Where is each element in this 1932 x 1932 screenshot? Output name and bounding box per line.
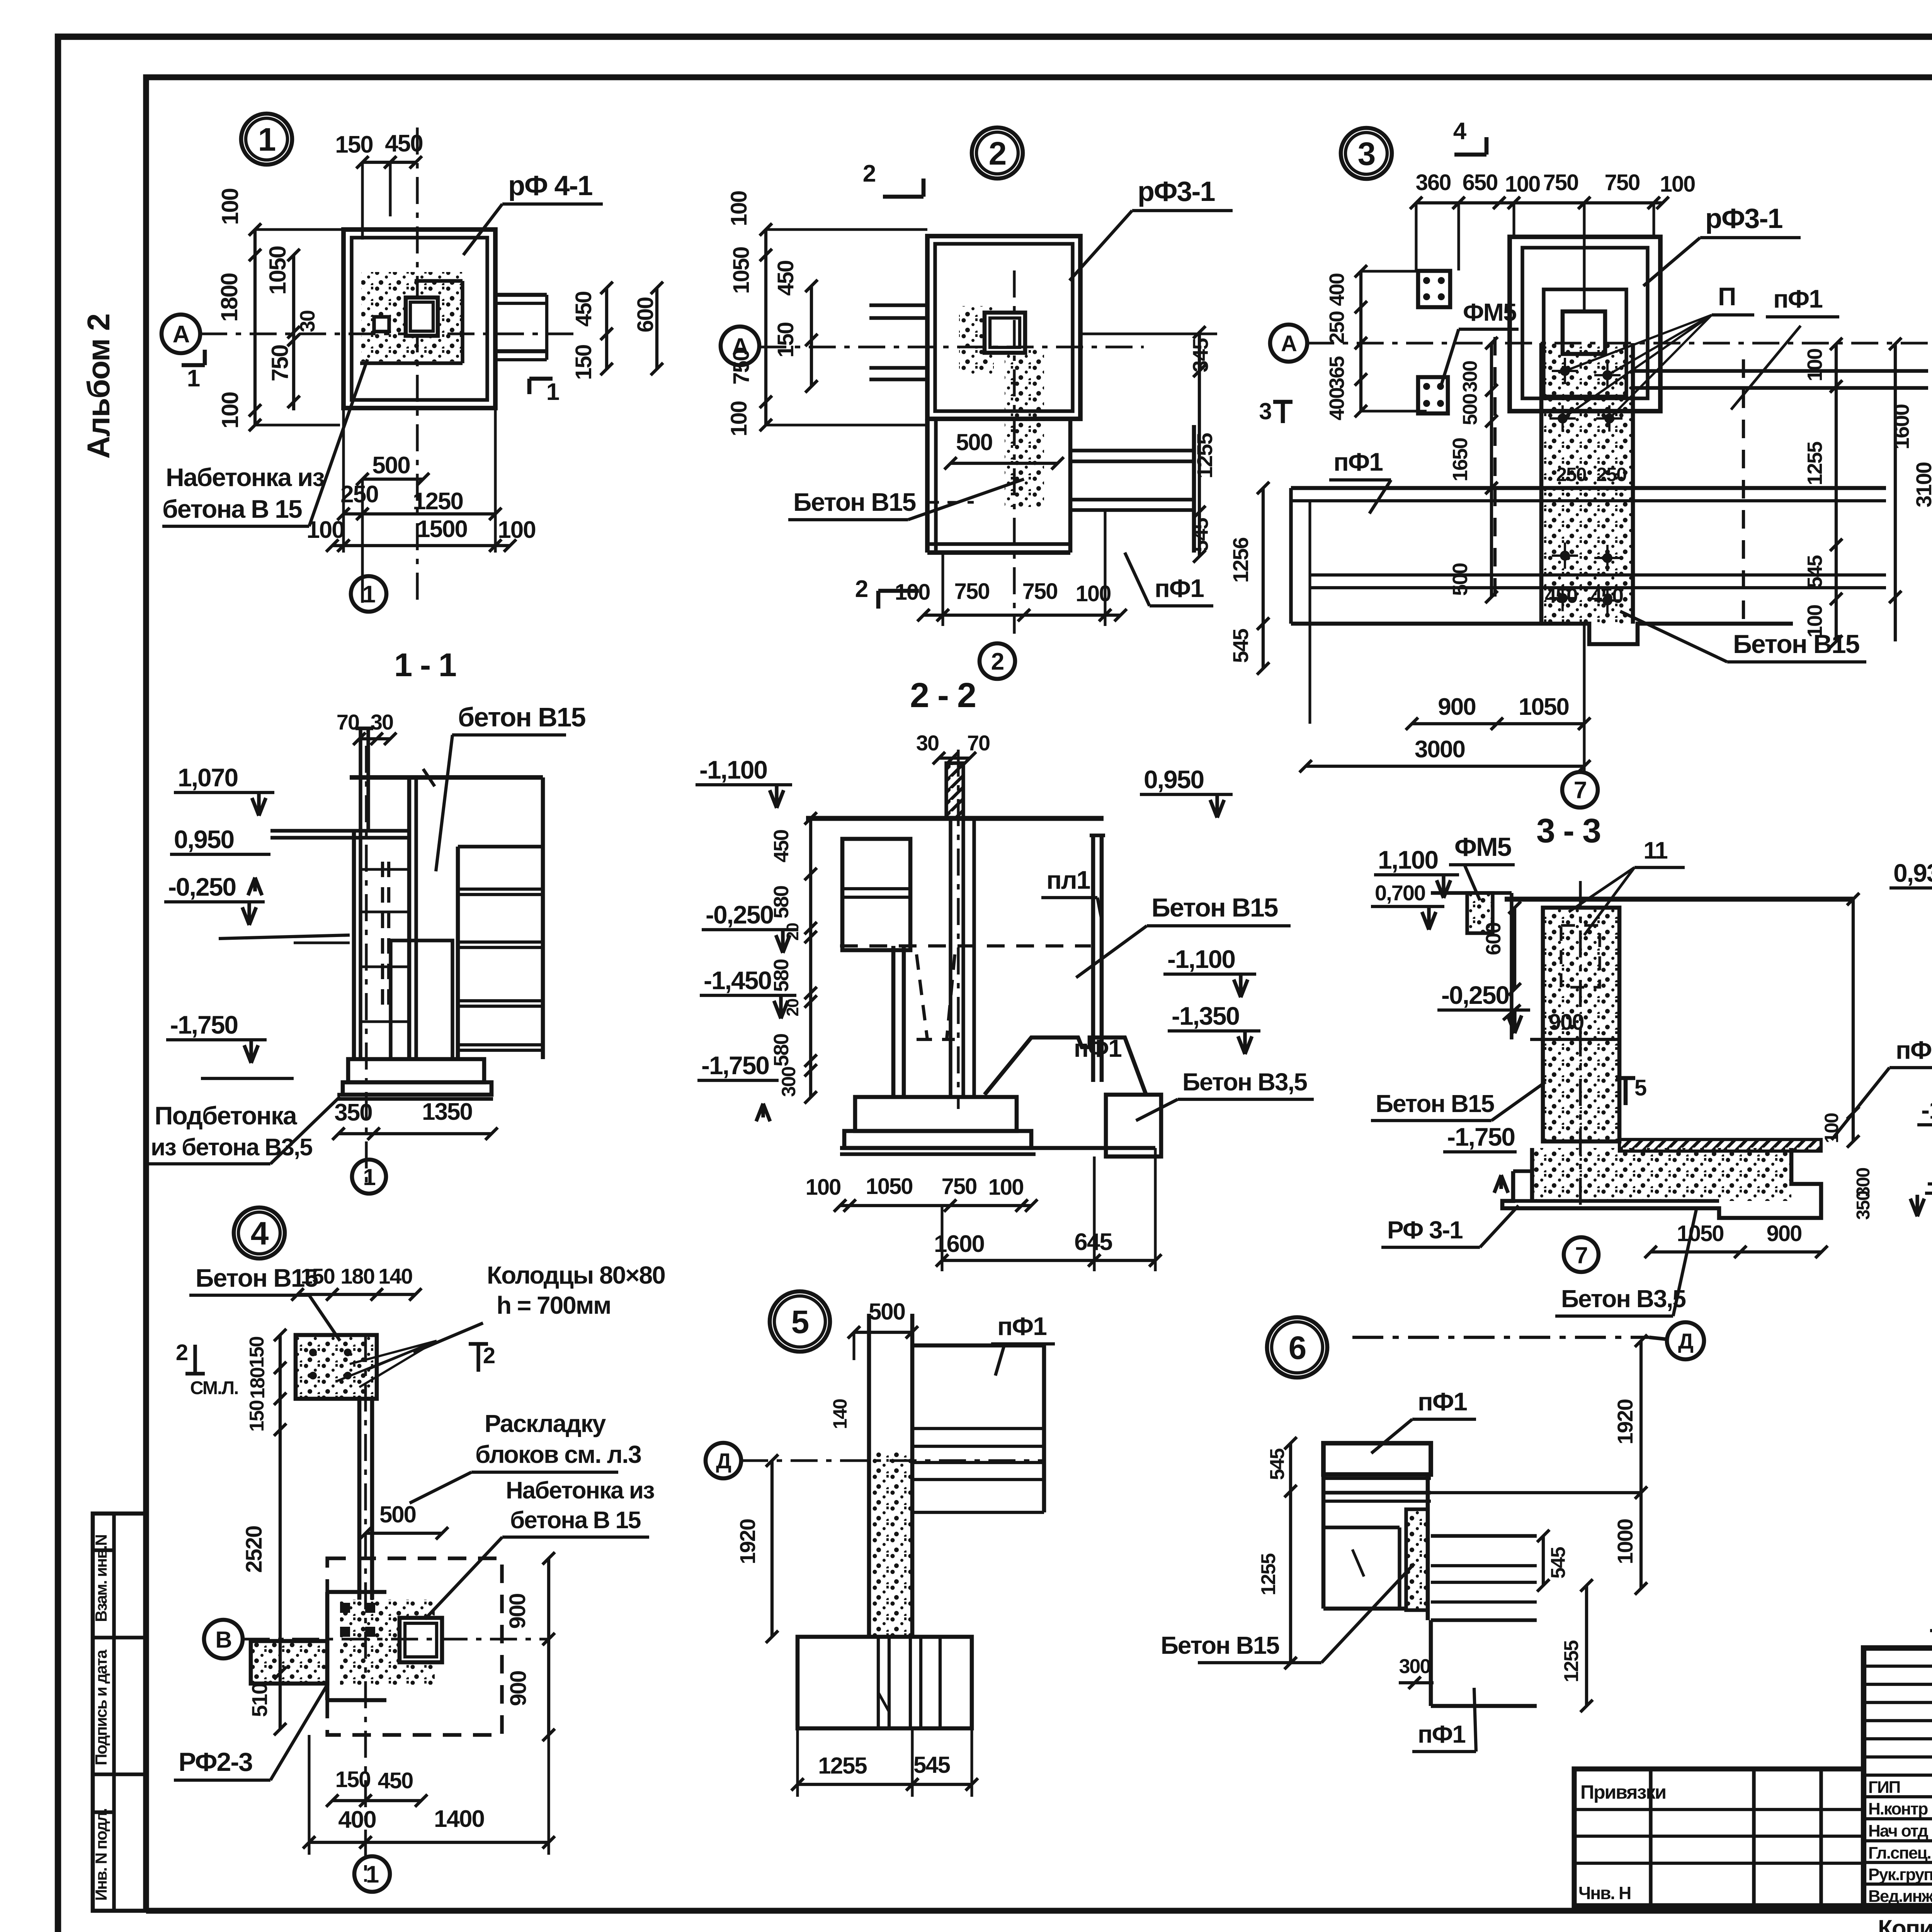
svg-text:545: 545 bbox=[1547, 1547, 1570, 1579]
detail3 axis circle A bbox=[1270, 325, 1307, 362]
section1-1 right shelf block bbox=[456, 847, 460, 1059]
section1-1 centerline vertical bbox=[365, 746, 367, 1186]
svg-text:150: 150 bbox=[335, 131, 372, 158]
node circle 7 under detail3 bbox=[1562, 772, 1598, 808]
svg-text:5: 5 bbox=[1634, 1075, 1646, 1100]
svg-text:750: 750 bbox=[1022, 579, 1058, 604]
svg-text:1: 1 bbox=[258, 121, 276, 158]
svg-text:А: А bbox=[173, 321, 190, 348]
svg-text:1050: 1050 bbox=[265, 246, 291, 294]
svg-text:2 - 2: 2 - 2 bbox=[910, 676, 976, 715]
svg-text:100: 100 bbox=[1803, 605, 1827, 638]
svg-text:1800: 1800 bbox=[216, 273, 242, 321]
svg-text:3100: 3100 bbox=[1912, 463, 1932, 508]
svg-text:1: 1 bbox=[546, 379, 559, 405]
detail1 axis centerline vertical bbox=[416, 128, 418, 607]
detail4 concrete in lower plan bbox=[340, 1600, 435, 1685]
svg-text:900: 900 bbox=[506, 1671, 531, 1706]
svg-text:100: 100 bbox=[726, 191, 752, 226]
svg-text:пФ1: пФ1 bbox=[1773, 284, 1822, 313]
node circle 3 bbox=[1341, 128, 1392, 179]
svg-text:100: 100 bbox=[1505, 172, 1540, 197]
svg-text:450: 450 bbox=[1545, 584, 1577, 607]
svg-text:1400: 1400 bbox=[434, 1806, 484, 1832]
section1-1 footing bbox=[348, 1059, 484, 1082]
svg-text:Д: Д bbox=[1678, 1329, 1693, 1353]
svg-text:750: 750 bbox=[1605, 170, 1640, 195]
svg-text:Копир.: Копир. bbox=[1878, 1915, 1932, 1932]
fm5 top line bbox=[1431, 891, 1512, 895]
svg-text:2: 2 bbox=[989, 135, 1006, 172]
svg-text:400: 400 bbox=[1325, 274, 1349, 306]
svg-text:545: 545 bbox=[913, 1752, 950, 1778]
section2-2 right panel pl1 bbox=[1091, 835, 1095, 1082]
node circle 4 bbox=[234, 1207, 285, 1259]
svg-text:бетона В 15: бетона В 15 bbox=[510, 1507, 641, 1534]
detail6 axis circle D right bbox=[1667, 1322, 1704, 1359]
svg-text:пФ1: пФ1 bbox=[1896, 1036, 1932, 1064]
detail2 axis centerline vertical bbox=[1013, 270, 1015, 634]
svg-text:Бетон В15: Бетон В15 bbox=[1376, 1090, 1494, 1117]
svg-text:Бетон В15: Бетон В15 bbox=[196, 1264, 318, 1292]
node circle 2 bottom bbox=[980, 643, 1015, 679]
svg-text:450: 450 bbox=[378, 1768, 413, 1793]
svg-text:1050: 1050 bbox=[866, 1174, 912, 1199]
section2-2 dashed trapezoid bbox=[917, 954, 927, 1039]
svg-text:900: 900 bbox=[1438, 694, 1475, 720]
svg-text:150: 150 bbox=[571, 345, 596, 380]
section2-2 left upper wall bbox=[842, 839, 910, 950]
svg-text:0,700: 0,700 bbox=[1375, 881, 1425, 905]
detail1 small opening square bbox=[406, 298, 438, 336]
left sidebar boxes bbox=[93, 1514, 146, 1911]
detail4 leaders from kolodtsy to cap bbox=[350, 1341, 437, 1364]
svg-text:Н.контр: Н.контр bbox=[1868, 1799, 1928, 1818]
svg-text:100: 100 bbox=[895, 580, 930, 605]
svg-text:900: 900 bbox=[1549, 1010, 1584, 1035]
detail1 beam to the right bbox=[495, 293, 547, 297]
svg-text:0,950: 0,950 bbox=[174, 825, 234, 854]
svg-text:750: 750 bbox=[267, 345, 293, 381]
section1-1 column walls bbox=[352, 831, 356, 1059]
detail2 axis circle A bbox=[721, 327, 759, 365]
svg-text:Бетон В15: Бетон В15 bbox=[1151, 893, 1278, 922]
svg-text:Гл.спец.: Гл.спец. bbox=[1868, 1844, 1931, 1862]
svg-text:180: 180 bbox=[247, 1368, 269, 1399]
detail3 right beam top lines bbox=[1633, 369, 1928, 372]
inner frame bottom line bbox=[146, 1908, 1932, 1913]
section1-1 ladder lines in column bbox=[361, 868, 409, 871]
section1-1 ground line at -0,250 bbox=[219, 935, 350, 939]
svg-text:250: 250 bbox=[340, 481, 378, 508]
svg-text:2: 2 bbox=[991, 648, 1003, 675]
svg-text:1000: 1000 bbox=[1613, 1519, 1637, 1565]
svg-text:580: 580 bbox=[770, 886, 793, 918]
svg-text:250: 250 bbox=[1325, 311, 1349, 344]
section3-3 centerline bbox=[1579, 881, 1582, 1209]
detail2 lower wall extension bbox=[925, 419, 930, 553]
svg-text:600: 600 bbox=[633, 298, 658, 333]
svg-text:1255: 1255 bbox=[1803, 442, 1827, 485]
detail2 inner square opening bbox=[985, 313, 1025, 353]
svg-text:h = 700мм: h = 700мм bbox=[497, 1291, 611, 1319]
detail4 lower plan dashed rect bbox=[327, 1558, 502, 1735]
svg-text:Д: Д bbox=[716, 1449, 731, 1473]
detail2 concrete strip lower bbox=[1005, 349, 1044, 508]
svg-text:-1,750: -1,750 bbox=[1447, 1122, 1515, 1151]
svg-text:600: 600 bbox=[1482, 923, 1505, 955]
detail3 right dashed centerline vertical bbox=[1742, 359, 1745, 624]
detail6 lower right part bbox=[1429, 1620, 1433, 1706]
detail5 axis centerline bbox=[741, 1459, 1044, 1462]
personnel table bbox=[1864, 1648, 1932, 1906]
svg-text:РФ2-3: РФ2-3 bbox=[179, 1747, 252, 1777]
svg-text:7: 7 bbox=[1575, 1242, 1587, 1268]
svg-text:1: 1 bbox=[363, 1164, 375, 1190]
detail3 leader pf1 bbox=[1731, 326, 1801, 410]
svg-text:Набетонка из: Набетонка из bbox=[506, 1477, 654, 1504]
detail6 concrete strip bbox=[1406, 1509, 1428, 1610]
svg-text:3000: 3000 bbox=[1415, 736, 1465, 763]
svg-text:6: 6 bbox=[1289, 1330, 1306, 1366]
svg-text:2: 2 bbox=[855, 576, 867, 602]
svg-text:150: 150 bbox=[335, 1767, 371, 1792]
axis circle A detail1 bbox=[162, 315, 200, 353]
svg-text:450: 450 bbox=[571, 292, 596, 327]
svg-text:Бетон В15: Бетон В15 bbox=[1733, 629, 1859, 659]
detail2 left beam lines bbox=[869, 303, 927, 307]
detail3 bolt square B bbox=[1418, 377, 1448, 413]
svg-text:1600: 1600 bbox=[1889, 405, 1913, 450]
section2-2 hatched post bbox=[946, 763, 963, 818]
node circle 1 bbox=[241, 114, 292, 165]
svg-text:360: 360 bbox=[1416, 170, 1451, 195]
svg-text:Нач отд: Нач отд bbox=[1868, 1821, 1929, 1840]
svg-text:1920: 1920 bbox=[735, 1519, 760, 1565]
svg-text:140: 140 bbox=[829, 1399, 851, 1429]
svg-text:Привязки: Привязки bbox=[1580, 1781, 1666, 1803]
svg-text:Бетон В15: Бетон В15 bbox=[1161, 1631, 1279, 1659]
svg-text:1: 1 bbox=[366, 1861, 379, 1888]
svg-text:1 - 1: 1 - 1 bbox=[394, 647, 456, 684]
svg-text:3 - 3: 3 - 3 bbox=[1536, 811, 1600, 850]
detail6 right beam lines bbox=[1426, 1475, 1430, 1620]
svg-text:500: 500 bbox=[372, 452, 410, 479]
svg-text:450: 450 bbox=[385, 130, 422, 157]
svg-text:150: 150 bbox=[773, 323, 798, 358]
node circle 1 under section 1-1 bbox=[352, 1160, 386, 1194]
svg-text:2520: 2520 bbox=[241, 1526, 267, 1573]
svg-text:1,070: 1,070 bbox=[178, 763, 238, 792]
svg-text:1255: 1255 bbox=[1257, 1553, 1280, 1595]
svg-text:ГИП: ГИП bbox=[1868, 1778, 1900, 1797]
detail1 inner plan rect bbox=[352, 238, 487, 400]
detail2 concrete patch upper bbox=[959, 306, 994, 374]
detail3 upper block outer rect bbox=[1510, 237, 1660, 411]
section1-1 top post bbox=[359, 728, 362, 831]
svg-text:Рук.груп: Рук.груп bbox=[1868, 1865, 1932, 1884]
detail3 upper block inner rect bbox=[1522, 248, 1648, 398]
svg-text:750: 750 bbox=[954, 579, 990, 604]
svg-text:0,950: 0,950 bbox=[1144, 765, 1204, 794]
svg-text:500: 500 bbox=[1449, 563, 1472, 596]
detail4 bolt squares lower bbox=[340, 1603, 350, 1613]
detail6 axis centerline bbox=[1352, 1336, 1649, 1339]
detail5 footing plan bbox=[798, 1637, 972, 1728]
section2-2 lower column bbox=[891, 946, 896, 1097]
svg-text:250: 250 bbox=[1596, 464, 1626, 485]
svg-text:500: 500 bbox=[1459, 394, 1481, 425]
svg-text:пл1: пл1 bbox=[1046, 866, 1090, 894]
svg-text:пФ1: пФ1 bbox=[1418, 1387, 1467, 1416]
svg-text:150: 150 bbox=[246, 1401, 268, 1432]
svg-text:100: 100 bbox=[217, 189, 243, 225]
svg-text:Подбетонка: Подбетонка bbox=[155, 1101, 298, 1130]
detail5 top shelf lines bbox=[912, 1344, 1044, 1348]
section3-3 footing outline bbox=[1502, 1148, 1821, 1218]
detail4 cap bolt squares bbox=[309, 1349, 317, 1356]
section3-3 hatched rubble strip bbox=[1619, 1139, 1821, 1151]
svg-text:пФ1: пФ1 bbox=[1155, 574, 1204, 602]
svg-text:-1,100: -1,100 bbox=[1167, 945, 1235, 973]
svg-text:-1,750: -1,750 bbox=[701, 1051, 769, 1080]
svg-text:750: 750 bbox=[942, 1174, 977, 1199]
svg-text:545: 545 bbox=[1266, 1449, 1289, 1480]
svg-text:30: 30 bbox=[916, 731, 939, 755]
detail3 bolt square A bbox=[1418, 271, 1450, 307]
svg-text:Бетон В3,5: Бетон В3,5 bbox=[1561, 1285, 1685, 1313]
svg-text:Инв. N подл.: Инв. N подл. bbox=[92, 1809, 110, 1901]
svg-text:СМ.Л.: СМ.Л. bbox=[190, 1378, 238, 1398]
svg-text:пФ1: пФ1 bbox=[1418, 1720, 1465, 1748]
svg-text:450: 450 bbox=[770, 830, 793, 862]
svg-text:500: 500 bbox=[956, 429, 992, 455]
svg-text:П: П bbox=[1718, 282, 1735, 311]
detail2 plan inner rect bbox=[935, 244, 1073, 411]
svg-text:100: 100 bbox=[217, 392, 243, 429]
svg-text:-1,100: -1,100 bbox=[699, 755, 767, 784]
detail5 strip concrete bbox=[871, 1451, 911, 1637]
node circle 7 under 3-3 bbox=[1564, 1237, 1599, 1272]
section2-2 right beton block bbox=[1106, 1095, 1161, 1156]
detail6 break mark left block bbox=[1352, 1549, 1364, 1577]
svg-text:580: 580 bbox=[770, 1034, 793, 1066]
section3-3 dashed pocket in column bbox=[1561, 925, 1600, 987]
svg-text:1050: 1050 bbox=[729, 247, 754, 294]
detail4 axis line B horizontal bbox=[243, 1638, 549, 1640]
svg-text:1250: 1250 bbox=[413, 488, 463, 515]
svg-text:250: 250 bbox=[1556, 464, 1586, 485]
detail3 concrete column strip bbox=[1541, 343, 1633, 624]
section3-3 footing speckled bbox=[1532, 1148, 1791, 1201]
svg-text:-0,250: -0,250 bbox=[168, 872, 236, 901]
svg-text:545: 545 bbox=[1803, 555, 1827, 588]
section1-1 middle concrete block bbox=[391, 940, 452, 1059]
svg-text:Взам. инв.N: Взам. инв.N bbox=[92, 1535, 110, 1622]
svg-text:-1,350: -1,350 bbox=[1172, 1002, 1239, 1030]
svg-text:150: 150 bbox=[301, 1264, 334, 1288]
svg-text:бетона В 15: бетона В 15 bbox=[162, 495, 302, 523]
svg-text:Подпись и дата: Подпись и дата bbox=[92, 1650, 110, 1765]
svg-text:510: 510 bbox=[247, 1683, 272, 1717]
detail3 footing left cut edge bbox=[1289, 488, 1293, 624]
svg-text:пФ1: пФ1 bbox=[1074, 1034, 1121, 1062]
detail6 top beam block bbox=[1323, 1443, 1431, 1475]
svg-text:300: 300 bbox=[1399, 1655, 1430, 1678]
section1-1 top wall line bbox=[350, 775, 543, 780]
svg-text:Вед.инж.: Вед.инж. bbox=[1868, 1887, 1932, 1906]
svg-text:1650: 1650 bbox=[1449, 438, 1472, 481]
detail3 footing inner lines bbox=[1291, 499, 1886, 502]
svg-text:Раскладку: Раскладку bbox=[485, 1410, 606, 1437]
svg-text:150: 150 bbox=[246, 1337, 268, 1368]
svg-text:100: 100 bbox=[1803, 349, 1827, 381]
detail3 footing plan top edge bbox=[1291, 486, 1886, 490]
svg-text:1050: 1050 bbox=[1677, 1221, 1723, 1246]
svg-text:30: 30 bbox=[371, 710, 393, 734]
section3-3 top slab line bbox=[1505, 897, 1853, 902]
detail4 concrete cap bbox=[296, 1335, 377, 1399]
svg-text:Набетонка из: Набетонка из bbox=[166, 463, 324, 492]
detail1 small square left bbox=[374, 317, 389, 332]
svg-text:400: 400 bbox=[1325, 388, 1349, 420]
svg-text:3: 3 bbox=[1259, 398, 1271, 424]
svg-text:Колодцы 80×80: Колодцы 80×80 bbox=[487, 1261, 665, 1289]
detail4 white square opening bbox=[400, 1618, 442, 1662]
detail4 left concrete stub bbox=[251, 1641, 327, 1684]
detail1 inner concrete boundary rect bbox=[415, 279, 463, 282]
fm5 right vertical line bbox=[1510, 893, 1513, 1039]
node circle 6 bbox=[1267, 1317, 1327, 1378]
svg-text:-1,100: -1,100 bbox=[1921, 1095, 1932, 1124]
svg-text:Альбом 2: Альбом 2 bbox=[81, 314, 116, 459]
svg-text:1350: 1350 bbox=[422, 1099, 472, 1125]
svg-text:1255: 1255 bbox=[1192, 433, 1217, 478]
detail2 axis centerline horizontal bbox=[759, 345, 1144, 348]
svg-text:ФМ5: ФМ5 bbox=[1463, 298, 1516, 326]
svg-text:1920: 1920 bbox=[1613, 1400, 1637, 1445]
svg-text:1050: 1050 bbox=[1519, 694, 1569, 720]
detail4 lower plan solid partial bbox=[325, 1592, 330, 1700]
section1-1 dashed rebar lines bbox=[381, 862, 384, 1012]
svg-text:140: 140 bbox=[378, 1264, 412, 1288]
detail2 plan outer rect bbox=[927, 236, 1080, 419]
detail2 right shelf lines bbox=[1070, 449, 1194, 452]
svg-text:100: 100 bbox=[1821, 1113, 1842, 1143]
detail3 dashed verticals bbox=[1493, 337, 1497, 605]
svg-text:30: 30 bbox=[296, 311, 319, 332]
svg-text:365: 365 bbox=[1325, 356, 1349, 389]
svg-text:450: 450 bbox=[773, 261, 798, 296]
section2-2 center post lines bbox=[949, 818, 952, 1097]
svg-text:пФ1: пФ1 bbox=[997, 1312, 1046, 1340]
svg-text:0,930: 0,930 bbox=[1893, 859, 1932, 887]
svg-text:100: 100 bbox=[988, 1175, 1024, 1200]
detail3 small square opening bbox=[1563, 311, 1605, 354]
svg-text:100: 100 bbox=[726, 401, 752, 437]
svg-text:900: 900 bbox=[1767, 1221, 1802, 1246]
svg-text:500: 500 bbox=[869, 1299, 905, 1325]
svg-text:100: 100 bbox=[1660, 172, 1695, 197]
svg-text:180: 180 bbox=[340, 1264, 374, 1288]
svg-text:-1,450: -1,450 bbox=[704, 966, 771, 995]
svg-text:бетон В15: бетон В15 bbox=[458, 702, 585, 732]
detail3 anchor bolts upper bbox=[1560, 366, 1570, 376]
svg-text:11: 11 bbox=[1643, 837, 1667, 864]
detail4 axis circle B bbox=[204, 1620, 243, 1658]
detail3 leaders from P to bolts bbox=[1565, 315, 1712, 371]
svg-text:70: 70 bbox=[337, 710, 359, 734]
svg-text:750: 750 bbox=[729, 350, 754, 385]
svg-text:350: 350 bbox=[1853, 1191, 1874, 1220]
node circle 1 bottom bbox=[351, 576, 386, 612]
svg-text:2: 2 bbox=[176, 1340, 187, 1365]
svg-text:500: 500 bbox=[379, 1502, 416, 1527]
svg-text:2: 2 bbox=[483, 1343, 495, 1368]
svg-text:7: 7 bbox=[1574, 777, 1586, 804]
section2-2 dashed mid line bbox=[840, 944, 1091, 947]
svg-text:рФ 4-1: рФ 4-1 bbox=[508, 170, 592, 201]
svg-text:РФ 3-1: РФ 3-1 bbox=[1387, 1216, 1463, 1244]
svg-text:545: 545 bbox=[1228, 629, 1253, 663]
section2-2 top slab bbox=[806, 816, 1104, 821]
svg-text:300: 300 bbox=[778, 1067, 799, 1097]
detail4 wall centerline bbox=[364, 1335, 367, 1882]
svg-text:4: 4 bbox=[251, 1215, 269, 1252]
svg-text:В: В bbox=[215, 1627, 231, 1653]
svg-text:рФ3-1: рФ3-1 bbox=[1705, 203, 1782, 234]
section3-3 concrete column bbox=[1543, 908, 1619, 1141]
svg-text:20: 20 bbox=[783, 999, 802, 1016]
svg-text:-0,250: -0,250 bbox=[706, 900, 773, 929]
detail5 axis circle D bbox=[706, 1443, 741, 1478]
svg-text:Чнв. Н: Чнв. Н bbox=[1578, 1883, 1631, 1903]
svg-text:А: А bbox=[1281, 331, 1297, 356]
section1-1 left floor lines bbox=[270, 829, 410, 832]
detail4 wall strip vertical bbox=[357, 1399, 362, 1600]
svg-text:650: 650 bbox=[1463, 170, 1498, 195]
section2-2 pf1 trapezoid block bbox=[985, 1037, 1146, 1095]
detail1 concrete fill bbox=[361, 272, 463, 361]
detail5 footing break mark bbox=[878, 1692, 889, 1712]
svg-text:1: 1 bbox=[187, 365, 200, 392]
svg-text:рФ3-1: рФ3-1 bbox=[1138, 176, 1215, 207]
svg-text:1,100: 1,100 bbox=[1378, 845, 1438, 874]
svg-text:ФМ5: ФМ5 bbox=[1454, 832, 1511, 862]
svg-text:Бетон В15: Бетон В15 bbox=[793, 488, 916, 516]
svg-text:70: 70 bbox=[967, 731, 990, 755]
node circle 5 bbox=[770, 1291, 830, 1352]
svg-text:20: 20 bbox=[783, 923, 802, 940]
svg-text:Бетон В3,5: Бетон В3,5 bbox=[1182, 1068, 1307, 1096]
svg-text:1255: 1255 bbox=[1560, 1640, 1583, 1682]
detail3 anchor bolts lower bbox=[1560, 551, 1570, 561]
section2-2 centerline bbox=[957, 750, 959, 1109]
fm5 concrete stub bbox=[1467, 893, 1493, 933]
svg-text:750: 750 bbox=[1543, 170, 1578, 195]
svg-text:1256: 1256 bbox=[1228, 537, 1253, 583]
svg-text:350: 350 bbox=[334, 1099, 372, 1126]
detail1 axis centerline horizontal bbox=[200, 332, 580, 335]
detail1 outer plan rect bbox=[344, 230, 495, 408]
privyazka table bbox=[1574, 1769, 1864, 1906]
svg-text:100: 100 bbox=[498, 517, 535, 543]
svg-text:2: 2 bbox=[863, 160, 875, 187]
svg-text:900: 900 bbox=[505, 1594, 530, 1629]
node circle 2 bbox=[972, 128, 1023, 179]
svg-text:-1,750: -1,750 bbox=[170, 1010, 238, 1039]
svg-text:300: 300 bbox=[1459, 361, 1481, 393]
